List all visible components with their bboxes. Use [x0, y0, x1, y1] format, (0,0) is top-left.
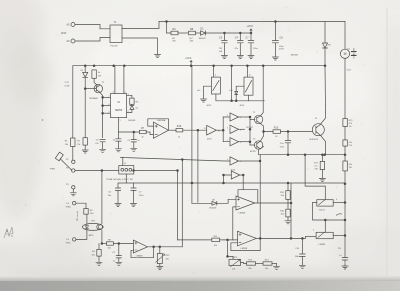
- wire U4E out drop: [242, 175, 244, 190]
- wire R20 down: [344, 155, 346, 258]
- capacitor C5: [131, 132, 136, 148]
- wire R13-R14: [256, 263, 264, 265]
- svg-text:FIL/CM: FIL/CM: [111, 46, 118, 48]
- wire R14 gnd: [272, 263, 277, 265]
- wire J1 right line: [134, 170, 178, 172]
- ground R14: [274, 264, 280, 270]
- node rail-gnd1: [304, 154, 306, 156]
- transistor Q2: [254, 115, 262, 123]
- capacitor C3: [100, 140, 105, 149]
- wire R9 to rail: [344, 146, 346, 155]
- svg-text:1W: 1W: [98, 76, 101, 78]
- wire D8 line: [192, 202, 212, 204]
- terminal LS2: [73, 238, 76, 241]
- wire U4E out: [240, 174, 243, 176]
- svg-text:PUR+: PUR+: [66, 206, 72, 208]
- wire U1 pin7: [103, 96, 111, 98]
- node B1 loop: [344, 219, 346, 221]
- wire divider drop: [287, 183, 289, 191]
- node R17 rail: [322, 154, 324, 156]
- resistor R18: [286, 209, 290, 217]
- resistor R21: [98, 244, 100, 250]
- node bus-U1pin8: [113, 65, 115, 67]
- svg-text:1N4007: 1N4007: [199, 38, 207, 40]
- resistor R19: [286, 191, 290, 200]
- wire emitter rail: [259, 154, 345, 156]
- node U4E in: [223, 174, 225, 176]
- pen mark: [336, 214, 342, 216]
- wire AC1 to T1: [75, 25, 110, 29]
- ground R21: [96, 262, 102, 265]
- diode D8: [212, 201, 217, 205]
- svg-text:NE555: NE555: [115, 109, 123, 112]
- resistor R8: [189, 31, 196, 35]
- switch S1 terminal P2: [72, 169, 75, 172]
- op-amp U2A: [153, 122, 168, 138]
- svg-text:8: 8: [113, 91, 114, 93]
- wire D8 to U3A: [217, 199, 236, 203]
- wire B1 right: [333, 202, 345, 204]
- svg-text:LM358A: LM358A: [157, 119, 166, 122]
- node rail-C9: [287, 154, 289, 156]
- resistor R7: [139, 130, 146, 133]
- label U4 pins: [204, 115, 242, 163]
- wire B2 wiper: [324, 220, 326, 232]
- label R20: [349, 164, 353, 169]
- resistor R9: [343, 140, 347, 146]
- svg-text:1N4148: 1N4148: [209, 208, 217, 210]
- node R16 out: [197, 129, 199, 131]
- resistor R10: [273, 130, 281, 134]
- node U4E feed: [223, 182, 225, 184]
- node U2B out: [153, 246, 155, 248]
- svg-text:6: 6: [336, 199, 337, 201]
- ground C1: [115, 149, 121, 152]
- wire pot feed: [305, 155, 325, 200]
- ground C13: [131, 204, 137, 207]
- wire top rail: [159, 21, 345, 23]
- node opto collector tap: [101, 170, 103, 172]
- svg-text:4: 4: [215, 75, 216, 77]
- svg-text:3: 3: [128, 94, 129, 96]
- svg-text:2W: 2W: [190, 41, 193, 43]
- resistor R1: [71, 138, 75, 147]
- wire U2B out: [148, 246, 183, 248]
- svg-text:R10: R10: [274, 126, 279, 129]
- wire Q4 collector: [320, 112, 325, 125]
- wire feed line: [121, 157, 231, 161]
- node bus-S2: [247, 65, 249, 67]
- wire RP1 down: [159, 264, 161, 266]
- ground C4: [237, 56, 243, 59]
- node U1 pin6: [102, 105, 104, 107]
- svg-text:PWR: PWR: [50, 169, 55, 171]
- svg-text:2W: 2W: [172, 41, 175, 43]
- wire R15-R9: [344, 127, 346, 140]
- resistor R3: [84, 209, 88, 215]
- wire U1 pin2: [103, 112, 111, 114]
- node bus-U1pin4: [123, 65, 125, 67]
- IC U1 timer: [111, 94, 127, 118]
- node RP2 mid: [227, 256, 229, 258]
- potentiometer RP2: [229, 259, 241, 265]
- optocoupler OP1: [82, 223, 103, 230]
- wire bus stub right: [305, 65, 326, 67]
- node C5: [133, 131, 135, 133]
- svg-text:2.7V: 2.7V: [65, 82, 70, 84]
- label R15: [349, 120, 354, 128]
- wire B2 left: [306, 236, 317, 238]
- capacitor C6: [222, 33, 228, 55]
- diode D4: [127, 104, 134, 112]
- wire feedback vertical x291: [290, 183, 292, 238]
- node battery caps: [133, 170, 135, 172]
- svg-text:MJ10012: MJ10012: [310, 139, 319, 141]
- wire U2A feedback: [148, 119, 169, 130]
- wire U4C out: [239, 141, 251, 143]
- op-amp U2B: [133, 240, 147, 253]
- svg-text:PUR-: PUR-: [66, 243, 71, 245]
- svg-text:1M: 1M: [77, 144, 80, 146]
- node rail-C8: [275, 21, 277, 23]
- label R17: [314, 162, 319, 170]
- wire U1 pin8 to bus: [114, 66, 116, 94]
- svg-text:9: 9: [227, 159, 228, 161]
- resistor R2: [83, 138, 87, 145]
- svg-text:5: 5: [128, 111, 129, 113]
- label C12 C13: [108, 191, 145, 197]
- capacitor C9: [285, 132, 291, 155]
- wire VCC entry arrow: [190, 61, 192, 66]
- transistor Q4 power: [312, 124, 324, 136]
- wire B2 right: [333, 235, 345, 237]
- wire rail to R6: [167, 22, 172, 34]
- wire buffer input column: [222, 117, 224, 142]
- terminal LS1: [73, 202, 76, 205]
- diode D1: [201, 31, 206, 35]
- wire R18 gnd: [287, 217, 289, 220]
- wire U4E input: [224, 175, 232, 183]
- node bus-Q2: [262, 65, 264, 67]
- wire sense line: [134, 182, 346, 184]
- svg-text:TL431: TL431: [319, 209, 326, 211]
- wire Q1 base: [85, 88, 96, 90]
- svg-text:11: 11: [204, 128, 206, 130]
- svg-text:6: 6: [240, 142, 241, 144]
- wire U2B feedback: [131, 247, 154, 258]
- node bus-R4: [93, 65, 95, 67]
- wire battery caps tee: [118, 174, 134, 188]
- capacitor C2: [116, 244, 121, 262]
- svg-text:6.3V: 6.3V: [280, 146, 285, 148]
- node D5-base: [84, 88, 86, 90]
- node rail-R6: [166, 21, 168, 23]
- svg-text:5W: 5W: [315, 168, 318, 170]
- wire vertical VB: [181, 160, 183, 247]
- svg-text:MIN 5MEG: MIN 5MEG: [352, 49, 354, 59]
- resistor R4: [92, 70, 96, 78]
- wire T1 to ground: [122, 38, 158, 54]
- node base col bottom: [249, 141, 251, 143]
- ground C3: [100, 149, 106, 152]
- wire U2A out: [169, 129, 177, 131]
- svg-text:TOTAL NiCd(8) @10V / 7W: TOTAL NiCd(8) @10V / 7W: [106, 178, 134, 181]
- wire vertical VC: [191, 66, 193, 204]
- svg-text:5: 5: [313, 230, 314, 232]
- resistor R14: [263, 262, 272, 265]
- svg-text:0.5W: 0.5W: [65, 86, 70, 88]
- diode S2: [235, 92, 238, 101]
- motor M1: [340, 49, 349, 58]
- label R9: [349, 142, 353, 147]
- svg-text:4N25: 4N25: [89, 235, 95, 237]
- svg-text:2: 2: [240, 117, 241, 119]
- wire VCC arrow: [250, 29, 252, 33]
- terminal AC1: [71, 23, 75, 27]
- wire mid vertical: [231, 66, 233, 101]
- node RP2 tap: [227, 239, 229, 241]
- svg-text:1N4148: 1N4148: [128, 120, 136, 122]
- resistor R15: [343, 119, 347, 127]
- capacitor C4: [238, 33, 244, 55]
- resistor R20: [343, 161, 347, 171]
- svg-text:1N5408: 1N5408: [291, 54, 299, 56]
- node U3A out: [290, 202, 292, 204]
- wire R11 line: [178, 239, 238, 241]
- node bus-D5: [84, 65, 86, 67]
- wire U4B out: [239, 128, 245, 130]
- ground C7: [248, 56, 254, 59]
- node osc bottom: [231, 100, 233, 102]
- svg-text:Gnd: Gnd: [347, 69, 351, 71]
- resistor R6: [171, 31, 178, 35]
- buffer U4C: [223, 138, 238, 146]
- ground R2: [82, 150, 88, 153]
- buffer U4D: [230, 157, 239, 165]
- node C2: [118, 243, 120, 245]
- node emitters: [263, 131, 265, 133]
- buffer U4A: [223, 113, 238, 121]
- wire opto collector up: [101, 171, 103, 224]
- node R10 out: [287, 131, 289, 133]
- wire S1 input: [204, 86, 212, 98]
- oscillator S1 box: [211, 77, 220, 94]
- node C6: [224, 32, 226, 34]
- wire P2 to connector: [75, 170, 119, 172]
- wire U4A out: [239, 116, 251, 118]
- node B1 right: [344, 202, 346, 204]
- wire R3 to opto: [86, 214, 88, 223]
- svg-text:LM385: LM385: [319, 244, 326, 246]
- node R20-pot: [344, 183, 346, 185]
- wire U1 pin6: [103, 105, 111, 107]
- wire R7 to U2A: [146, 132, 153, 135]
- svg-text:LM358: LM358: [239, 212, 246, 214]
- wire S2 top to bus: [246, 66, 248, 77]
- node rail-Q4e: [324, 154, 326, 156]
- wire S2 input: [236, 86, 244, 91]
- wire U3A plus drop: [233, 207, 236, 240]
- svg-text:4: 4: [125, 91, 126, 93]
- svg-text:BC327: BC327: [250, 151, 257, 153]
- svg-text:115V: 115V: [61, 32, 67, 35]
- svg-text:6: 6: [108, 104, 109, 106]
- wire U4D out: [239, 160, 261, 162]
- potentiometer B2: [316, 232, 333, 238]
- resistor R16: [176, 129, 183, 132]
- wire left branch A: [72, 66, 74, 138]
- wire R8-D1: [196, 32, 201, 34]
- svg-text:1W: 1W: [349, 167, 352, 169]
- oscillator S2 box: [244, 77, 253, 95]
- wire LS1 to R3: [76, 203, 86, 208]
- node VCC feed: [250, 32, 252, 34]
- node VA top: [177, 170, 179, 172]
- wire U1 pin3 loop top: [127, 95, 132, 98]
- node bus-VCC: [190, 65, 192, 67]
- node opto out: [101, 243, 103, 245]
- node base col: [249, 128, 251, 130]
- wire U3A out: [258, 202, 291, 204]
- zener D5: [83, 66, 88, 138]
- wire T1 to rail: [122, 22, 159, 29]
- svg-text:M: M: [344, 52, 347, 56]
- transistor Q3: [254, 141, 262, 149]
- op-amp U3A: [236, 196, 255, 210]
- node VB top: [181, 159, 183, 161]
- buffer U4B: [230, 125, 239, 133]
- capacitor C10: [300, 238, 306, 264]
- node C4: [239, 32, 241, 34]
- wire R19-R18: [287, 199, 289, 209]
- svg-text:MPSA06: MPSA06: [90, 97, 99, 100]
- node bus-S1: [213, 65, 215, 67]
- capacitor C1: [116, 132, 121, 148]
- wire U2A input line: [118, 131, 139, 133]
- wire R6-R8: [178, 32, 189, 34]
- wire B1 left loop: [313, 203, 346, 221]
- wire Q1 emitter: [100, 92, 103, 138]
- ground C12: [115, 204, 121, 207]
- svg-text:Out: Out: [347, 47, 351, 50]
- switch S1 actuator: [55, 152, 63, 161]
- wire R17 drop: [321, 155, 323, 162]
- svg-text:5: 5: [227, 128, 228, 130]
- wire R16 to node: [183, 129, 207, 131]
- switch S1 lever: [60, 159, 72, 170]
- connector J1: [119, 166, 134, 175]
- svg-text:8: 8: [240, 161, 241, 163]
- wire S1 top to bus: [213, 66, 215, 77]
- transistor Q1: [94, 84, 102, 92]
- svg-text:AC: AC: [67, 40, 71, 43]
- node base col top: [249, 116, 251, 118]
- ground C2: [116, 262, 122, 265]
- ground C10: [299, 265, 305, 268]
- ground C5: [131, 148, 137, 151]
- svg-text:375V: 375V: [279, 49, 284, 51]
- node B2 right: [344, 235, 346, 237]
- capacitor C7: [248, 33, 254, 55]
- node U3B out: [259, 238, 261, 240]
- svg-text:TTL sound: TTL sound: [77, 212, 79, 222]
- ground R18: [285, 221, 291, 224]
- svg-text:AC: AC: [67, 24, 71, 27]
- wire vertical VA: [177, 171, 179, 240]
- resistor R13: [247, 262, 256, 265]
- op-amp U3B: [238, 231, 257, 246]
- wire U3A feedback: [238, 190, 258, 203]
- ground C8: [272, 57, 278, 60]
- svg-text:3: 3: [227, 115, 228, 117]
- wire base column: [249, 117, 251, 145]
- wire emitters join: [260, 123, 273, 148]
- wire rail to motor: [344, 22, 346, 50]
- node buffer col: [222, 129, 224, 131]
- node S2 bottom: [235, 100, 237, 102]
- wire D2 bus to Q4: [324, 66, 327, 112]
- svg-text:R16: R16: [177, 125, 182, 128]
- svg-text:1%: 1%: [349, 126, 352, 128]
- wire motor down: [344, 58, 346, 118]
- svg-text:2W: 2W: [328, 45, 331, 47]
- wire opto emitter down: [101, 230, 103, 243]
- wire R8b to U2B: [113, 243, 133, 245]
- svg-text:7: 7: [227, 140, 228, 142]
- wire D1 to C7 node: [206, 32, 252, 34]
- scan speck: [42, 119, 44, 121]
- svg-text:7: 7: [108, 96, 109, 98]
- node D2-bus: [324, 65, 326, 67]
- wire U3B out up rail: [259, 155, 261, 239]
- node U4D-col: [259, 160, 261, 162]
- wire U1 pin4 to bus: [123, 66, 125, 94]
- wire Q4 emitter: [321, 136, 326, 155]
- node U1 pin7: [102, 97, 104, 99]
- node divider top: [287, 182, 289, 184]
- svg-text:10: 10: [218, 130, 220, 132]
- node bus-mid: [231, 65, 233, 67]
- capacitor C8: [272, 22, 278, 57]
- resistor R8b: [106, 242, 113, 245]
- ground S1: [201, 99, 207, 102]
- capacitor C12: [115, 188, 120, 203]
- node RP1 tap: [159, 246, 161, 248]
- wire U3B feedback: [231, 238, 260, 250]
- svg-text:75V: 75V: [219, 48, 223, 50]
- capacitor C11: [342, 258, 348, 266]
- wire Q2 base: [250, 119, 255, 121]
- transformer T1: [110, 25, 122, 43]
- wire U4F out: [216, 129, 223, 131]
- wire Q2 collector to bus: [260, 66, 263, 117]
- wire R2 to ground: [84, 145, 86, 149]
- ground P3: [70, 189, 76, 196]
- wire R1 to P1: [72, 147, 74, 160]
- resistor R11: [212, 238, 220, 242]
- switch S1 terminal P1: [72, 160, 75, 163]
- wire LS2 to opto: [76, 230, 87, 239]
- ground R17: [319, 178, 325, 181]
- buffer U4E: [231, 171, 240, 179]
- resistor R17: [320, 161, 324, 169]
- motor terminal marks: [352, 52, 357, 56]
- wire S2 bottom: [248, 95, 250, 101]
- wire main VCC bus: [73, 65, 305, 67]
- ground C6: [221, 56, 227, 59]
- ground RP1: [157, 267, 163, 270]
- ground C11: [342, 266, 348, 269]
